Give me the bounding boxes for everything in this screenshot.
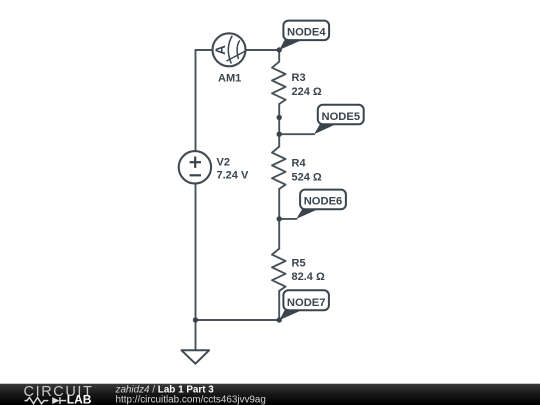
wire R3 to node5 (278, 104, 280, 147)
svg-text:AM1: AM1 (218, 73, 241, 85)
node A junction top (277, 47, 282, 52)
svg-text:A: A (213, 45, 228, 55)
labels (217, 72, 325, 283)
junction node6 (277, 216, 282, 221)
svg-text:R5: R5 (292, 258, 306, 270)
ammeter AM1 body (213, 33, 246, 66)
svg-text:NODE4: NODE4 (287, 27, 326, 39)
svg-text:NODE6: NODE6 (304, 196, 343, 208)
svg-text:LAB: LAB (67, 393, 92, 405)
voltage source V2 plus/minus (190, 157, 201, 176)
wire stub node6 (279, 218, 296, 220)
wire bottom horizontal (196, 319, 280, 321)
svg-text:224 Ω: 224 Ω (292, 86, 322, 98)
node NODE6 flag (296, 190, 346, 219)
node NODE5 flag (314, 105, 364, 134)
wire R5 to bottom (278, 291, 280, 320)
svg-text:R4: R4 (292, 158, 307, 170)
ground stub wire (195, 320, 197, 350)
node NODE4 flag (279, 21, 329, 50)
svg-text:http://circuitlab.com/ccts463j: http://circuitlab.com/ccts463jvv9ag (116, 394, 266, 405)
resistor R5 (272, 249, 286, 291)
junction bottom left (193, 317, 198, 322)
wire top horizontal left of AM1 (196, 49, 213, 51)
junction dots (193, 47, 282, 322)
svg-text:NODE7: NODE7 (287, 297, 326, 309)
ammeter AM1 internals (227, 36, 246, 64)
svg-text:V2: V2 (217, 157, 230, 169)
resistor R3 (272, 62, 286, 104)
junction R3 bottom (277, 115, 282, 120)
svg-text:7.24 V: 7.24 V (217, 170, 249, 182)
resistor R4 (272, 147, 286, 189)
wire R4 to R5 (278, 189, 280, 249)
svg-text:82.4 Ω: 82.4 Ω (292, 271, 325, 283)
junction node5 (277, 132, 282, 137)
svg-text:NODE5: NODE5 (322, 111, 361, 123)
svg-text:R3: R3 (292, 72, 306, 84)
ground (182, 350, 210, 363)
wire left vertical lower (195, 184, 197, 320)
wire left vertical upper (195, 50, 197, 151)
footer logo diode triangle (52, 397, 59, 404)
footer logo resistor-diode squiggle (25, 397, 67, 404)
node NODE7 flag (280, 290, 329, 320)
junction bottom right (277, 317, 282, 322)
voltage source V2 body (179, 151, 211, 183)
svg-text:524 Ω: 524 Ω (292, 172, 322, 184)
wire stub node5 (279, 133, 314, 135)
wire top horizontal right of AM1 (246, 49, 280, 51)
wire right vertical segment node4 to R3 (278, 50, 280, 62)
